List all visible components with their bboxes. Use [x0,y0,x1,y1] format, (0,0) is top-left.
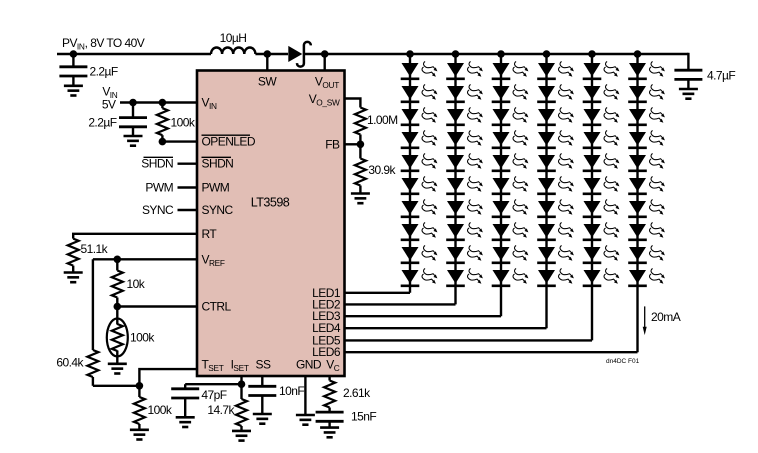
wire ISET pin [240,376,242,384]
svg-text:FB: FB [325,137,340,151]
schottky diode D1 [288,42,311,67]
node TSET [136,382,144,390]
node LED column 5 [588,50,596,58]
LED string 6 [628,62,665,286]
svg-text:SHDN: SHDN [202,157,234,171]
LED string 3 [492,62,529,286]
wire LED column 3 vertical [500,54,502,316]
wire LED1 [345,292,411,294]
svg-text:RT: RT [202,227,218,241]
wire PWM [178,186,198,188]
svg-text:100k: 100k [130,330,155,344]
ground (10nF) [253,414,272,424]
ground (15nF) [320,428,339,438]
svg-text:CTRL: CTRL [202,300,232,314]
svg-text:20mA: 20mA [651,310,681,324]
svg-text:1.00M: 1.00M [367,113,398,127]
current arrow 20mA [643,306,647,335]
svg-text:47pF: 47pF [201,388,226,402]
node LED column 6 [634,50,642,58]
resistor 1.00M [355,108,366,145]
resistor 100k (VIN) [157,103,168,142]
svg-text:14.7k: 14.7k [207,403,235,417]
svg-text:30.9k: 30.9k [368,163,396,177]
node VOUT top [321,50,329,58]
svg-text:SS: SS [256,358,271,372]
node OPENLED [159,138,167,146]
wire SYNC [178,209,198,211]
wire GND pin [304,376,306,415]
capacitor 47pF [171,384,199,417]
svg-text:dn4DC F01: dn4DC F01 [606,358,640,365]
node LED column 2 [452,50,460,58]
svg-text:SW: SW [258,75,277,89]
svg-text:LT3598: LT3598 [251,196,290,210]
svg-text:100k: 100k [171,115,196,129]
svg-text:SHDN: SHDN [141,157,173,171]
node FB [357,141,365,149]
node ISET [238,380,246,388]
svg-text:2.2µF: 2.2µF [90,64,118,78]
ground (51.1k) [64,273,83,283]
wire LED4 [345,327,547,329]
capacitor 10nF [248,386,276,414]
ground (100k TSET) [130,430,149,440]
wire LED3 [345,315,502,317]
resistor 2.61k [324,376,335,412]
wire FB [345,143,361,145]
pin label OPENLED [202,135,256,149]
svg-text:PWM: PWM [145,181,173,195]
wire OPENLED [162,140,197,142]
svg-text:2.2µF: 2.2µF [88,115,116,129]
svg-text:10k: 10k [127,277,146,291]
resistor 100k (TSET) [134,386,145,430]
svg-text:15nF: 15nF [351,410,376,424]
svg-text:GND: GND [296,358,322,372]
capacitor 4.7uF [674,53,702,89]
wire TSET [139,369,197,386]
wire LED column 1 vertical [409,54,411,293]
svg-text:100k: 100k [148,403,173,417]
pin label SHDN [202,157,234,171]
wire SW stub [266,54,268,71]
wire LED6 [345,351,638,353]
svg-text:PVIN, 8V TO 40V: PVIN, 8V TO 40V [62,36,145,52]
node LED column 1 [406,50,414,58]
resistor 51.1k [68,239,79,273]
wire VOUT stub [324,54,326,71]
ground (30.9k) [351,194,370,204]
resistor 14.7k [236,384,247,431]
svg-text:10µH: 10µH [220,31,247,45]
capacitor 15nF [316,412,344,428]
LED string 4 [537,62,574,286]
ground (47pF) [176,417,195,427]
resistor 30.9k [355,144,366,193]
wire VO_SW [345,99,361,108]
node SW top [264,50,272,58]
wire SS pin [261,376,263,386]
wire ISET to 47pF [185,383,241,385]
capacitor 2.2uF (VIN) [119,103,147,137]
node VIN cap [129,99,137,107]
wire LED column 4 vertical [545,54,547,328]
LED string 1 [401,62,438,286]
wire LED2 [345,303,456,305]
svg-text:SYNC: SYNC [202,203,234,217]
wire LED column 6 vertical [636,54,638,352]
LED string 2 [446,62,483,286]
svg-text:SYNC: SYNC [142,203,174,217]
wire RT [73,234,197,239]
node PVIN [70,50,78,58]
LED string 5 [583,62,620,286]
label SHDN external [141,157,173,171]
ground (PVIN cap) [64,86,83,96]
svg-text:10nF: 10nF [279,384,304,398]
ground (4.7uF) [679,89,698,99]
svg-text:OPENLED: OPENLED [202,135,256,149]
ground (VIN cap) [124,136,143,146]
node VREF/10k [114,255,122,263]
svg-text:2.61k: 2.61k [343,386,371,400]
wire CTRL [117,305,197,307]
resistor 60.4k [87,259,98,386]
wire: main top rail [57,53,688,55]
capacitor 2.2uF (PVIN) [59,54,87,86]
svg-text:5V: 5V [102,98,116,112]
wire LED column 2 vertical [454,54,456,304]
wire LED5 [345,339,593,341]
node LED column 3 [497,50,505,58]
potentiometer 100k (ellipse) [107,307,128,364]
wire LED column 5 vertical [591,54,593,340]
svg-text:PWM: PWM [202,181,230,195]
inductor L1 10uH [211,47,255,54]
wire 60.4k to TSET node [93,385,139,387]
ground (14.7k) [232,431,251,441]
svg-text:51.1k: 51.1k [81,242,109,256]
wire VREF [93,258,197,260]
ground (pot) [108,364,127,374]
svg-text:4.7µF: 4.7µF [707,68,735,82]
ground (GND pin) [296,415,315,425]
wire VIN [120,101,197,103]
node 100k top [159,99,167,107]
wire SHDN [178,162,198,164]
IC U1 LT3598 body [197,71,345,377]
node LED column 4 [543,50,551,58]
svg-text:60.4k: 60.4k [56,355,84,369]
node CTRL [114,303,122,311]
resistor 10k [112,259,123,306]
